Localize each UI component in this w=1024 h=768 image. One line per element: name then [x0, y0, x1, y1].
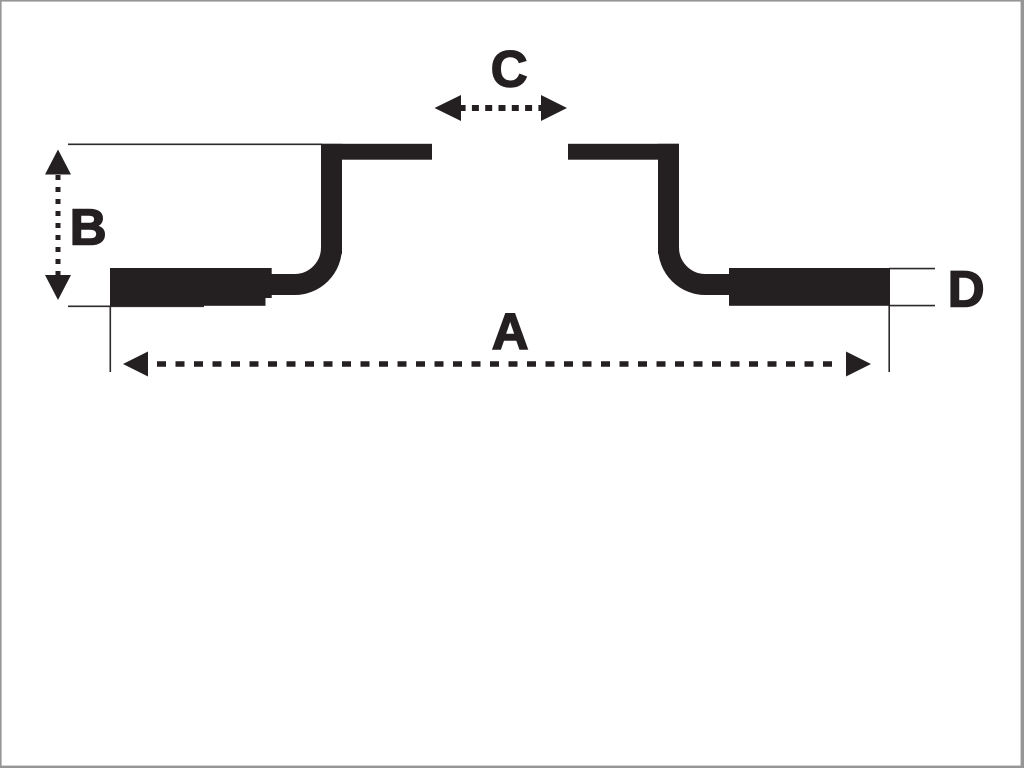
label C — [491, 40, 528, 97]
dimension C: right arrowhead — [541, 95, 567, 121]
dimension B: top arrowhead — [45, 150, 71, 175]
dimension C: left arrowhead — [435, 95, 462, 121]
extension line: right pad bottom reference for dimension D — [889, 305, 935, 307]
label A — [492, 303, 529, 360]
dimension C: dotted line — [459, 105, 541, 111]
disc profile left: hat flange — [321, 144, 432, 160]
disc profile left: friction pad block — [110, 268, 272, 306]
dimension A: right arrowhead — [846, 352, 871, 377]
disc profile left: riser — [321, 144, 342, 254]
label D — [948, 260, 985, 317]
svg-text:A: A — [492, 303, 529, 360]
svg-text:B: B — [70, 198, 107, 255]
dimension A: left arrowhead — [123, 352, 148, 377]
disc profile left: curve and plate strip — [206, 248, 332, 285]
disc profile right: riser — [658, 144, 679, 254]
extension line: vertical at left pad edge for dimension A — [109, 306, 111, 372]
disc profile right: hat flange — [568, 144, 679, 160]
extension line: right pad top reference for dimension D — [889, 268, 935, 270]
extension line: hub top reference (left) — [68, 143, 322, 145]
disc profile right: curve and plate strip — [669, 248, 795, 285]
dimension B: dotted line — [56, 175, 61, 276]
label B — [70, 198, 107, 255]
disc profile right: friction pad block — [729, 268, 890, 306]
svg-text:D: D — [948, 260, 985, 317]
svg-text:C: C — [491, 40, 528, 97]
dimension B: bottom arrowhead — [45, 275, 71, 300]
extension line: vertical at right pad edge for dimension A — [888, 305, 890, 372]
dimension A: dotted line — [157, 361, 840, 367]
extension line: pad bottom reference (left) — [68, 305, 204, 307]
